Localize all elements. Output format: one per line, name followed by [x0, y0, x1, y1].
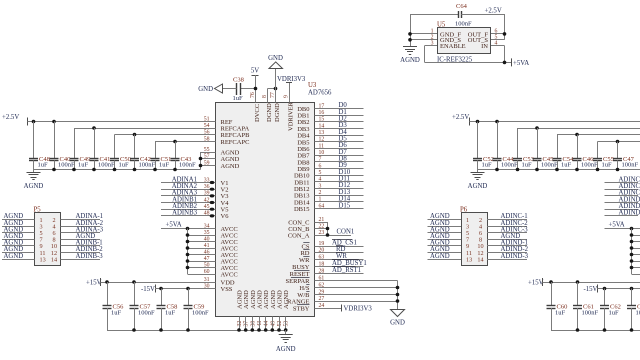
junction — [133, 168, 137, 172]
wire -15V to VSS — [155, 288, 216, 290]
pin 1 GND_F (U5) — [431, 29, 462, 39]
wire STBY stub — [315, 308, 342, 310]
connector P6 — [460, 207, 488, 266]
junction — [133, 133, 137, 137]
wire P5 pin 5 AGND — [2, 226, 35, 233]
capacitor C48 — [29, 122, 50, 170]
wire +15V to VDD — [101, 282, 216, 284]
wire net ADINA2 to V2 — [161, 183, 216, 191]
junction — [603, 287, 607, 291]
wire net ADINB2 to V5 — [161, 203, 216, 211]
wire AGND bottom bus — [107, 328, 286, 332]
wire net ADINC1 — [605, 176, 640, 183]
junction — [555, 168, 559, 172]
ic U3 AD7656 body — [216, 82, 333, 317]
svg-text:CON1: CON1 — [337, 229, 355, 236]
pin 42 V4 (U3 left) — [204, 197, 229, 207]
ground GND (left arrow port) — [198, 84, 222, 93]
wire net ADINA1 to V1 — [161, 176, 216, 184]
junction — [396, 293, 400, 297]
wire U3 AGND pin 38 — [251, 317, 255, 332]
svg-text:1uF: 1uF — [38, 162, 49, 169]
wire P5 pin 2 ADINA-1 — [61, 213, 104, 220]
wire AGND rail (right bank) — [478, 169, 640, 171]
svg-text:37: 37 — [244, 321, 250, 327]
ground AGND (under U3) — [276, 330, 296, 353]
wire +5VA bus (right) — [630, 229, 640, 275]
svg-text:BUSY: BUSY — [292, 264, 310, 271]
power -15V (right) — [584, 285, 598, 294]
pin 44 AGND (U3 bottom) — [263, 290, 270, 327]
net VDRI3V3 (top) — [277, 76, 306, 83]
svg-text:VDRIVER: VDRIVER — [288, 101, 295, 131]
wire OUT_S — [491, 14, 505, 40]
wire SERPAR to GND — [315, 281, 398, 310]
capacitor C56 — [103, 282, 125, 330]
wire P6 pin 8 AGND — [487, 233, 527, 240]
svg-text:100nF: 100nF — [455, 21, 472, 28]
wire REFCAPC net (right) — [598, 141, 640, 143]
junction — [575, 133, 579, 137]
junction — [52, 120, 56, 124]
capacitor C41 — [90, 128, 116, 170]
wire P5 pin 4 ADINA-2 — [61, 220, 104, 227]
pin 46 AVCC (U3 left) — [204, 249, 238, 259]
wire net D6 — [315, 142, 364, 149]
svg-text:53: 53 — [284, 321, 290, 327]
svg-text:60: 60 — [204, 269, 210, 275]
junction — [186, 227, 190, 231]
wire U3 AGND pin 53 — [284, 317, 288, 332]
svg-text:49: 49 — [270, 321, 276, 327]
pin 58 REFCAPC (U3 left) — [204, 136, 250, 146]
svg-text:1uF: 1uF — [119, 162, 130, 169]
wire CON_C — [315, 222, 328, 224]
svg-text:REFCAPB: REFCAPB — [221, 132, 251, 139]
capacitor C42 — [130, 135, 156, 170]
wire +5VA row (right) — [605, 228, 640, 230]
junction — [616, 168, 620, 172]
capacitor C61 — [573, 282, 599, 330]
capacitor C44 — [493, 122, 519, 170]
svg-text:RESET: RESET — [290, 271, 310, 278]
svg-text:100nF: 100nF — [501, 162, 518, 169]
svg-text:1uF: 1uF — [609, 309, 620, 316]
pin 14 DB3 (U3 right) — [297, 123, 324, 133]
svg-text:100nF: 100nF — [582, 309, 599, 316]
svg-text:REFCAPC: REFCAPC — [221, 139, 250, 146]
wire U5 top right — [461, 14, 504, 16]
pin 53 AGND (U3 bottom) — [283, 290, 290, 327]
ground GND (down arrow) — [390, 310, 405, 327]
wire GND_S — [410, 39, 437, 41]
svg-text:CON_A: CON_A — [288, 232, 310, 239]
capacitor C55 — [593, 142, 614, 170]
ground AGND (U5) — [400, 47, 420, 65]
junction — [535, 126, 539, 130]
wire net D3 — [315, 122, 364, 129]
junction — [199, 157, 203, 161]
svg-text:9: 9 — [284, 95, 290, 98]
svg-text:GND: GND — [390, 320, 405, 327]
wire U3 AGND pin 44 — [264, 317, 268, 332]
pin 1 DB14 (U3 right) — [294, 197, 322, 207]
pin 17 DB0 (U3 right) — [297, 103, 324, 113]
junction — [72, 168, 76, 172]
svg-text:IN: IN — [481, 43, 488, 50]
wire U3 AGND pin 32 — [237, 317, 241, 332]
ic U5 REF3225 body — [437, 22, 491, 64]
power -15V (left) — [141, 285, 156, 294]
capacitor C60 — [547, 282, 568, 330]
svg-text:ADINB3: ADINB3 — [172, 210, 198, 217]
ground AGND (right bank) — [468, 170, 488, 191]
junction — [92, 126, 96, 130]
wire U3 AGND pin 43 — [257, 317, 261, 332]
svg-text:14: 14 — [477, 256, 483, 263]
svg-text:100nF: 100nF — [138, 309, 155, 316]
wire P5 pin 7 AGND — [2, 233, 35, 240]
wire net D5 — [315, 136, 364, 143]
wire net ADINC3 — [605, 190, 640, 197]
svg-text:AD7656: AD7656 — [308, 90, 332, 97]
svg-text:1uF: 1uF — [522, 162, 533, 169]
capacitor C54 — [553, 135, 575, 170]
ground GND (up arrow) — [268, 55, 283, 69]
svg-text:DGND: DGND — [274, 103, 281, 122]
power +5VA (right) — [609, 222, 625, 229]
svg-text:1uF: 1uF — [561, 162, 572, 169]
pin 55 AGND (U3 left) — [204, 147, 240, 157]
power +2.5V (left) — [2, 114, 28, 126]
capacitor C45 — [533, 128, 559, 170]
power +5VA (U5) — [512, 58, 530, 67]
wire U5 left vertical — [410, 14, 412, 47]
svg-text:54: 54 — [204, 123, 210, 129]
wire P6 pin 7 AGND — [428, 233, 462, 240]
pin 36 V2 (U3 left) — [204, 184, 229, 194]
svg-text:1uF: 1uF — [482, 162, 493, 169]
junction — [549, 280, 553, 284]
wire DGND pin77 to GND — [275, 69, 277, 103]
pin 35 AVCC (U3 left) — [204, 230, 238, 240]
wire REFCAPA net — [74, 128, 216, 130]
junction — [132, 280, 136, 284]
junction — [535, 168, 539, 172]
junction — [576, 280, 580, 284]
wire P5 pin 1 AGND — [2, 213, 35, 220]
pin 6 OUT_F (U5) — [468, 29, 498, 39]
capacitor C64 — [455, 3, 472, 28]
pin 63 WR (U3 right) — [299, 254, 324, 264]
wire net ADIND1 — [605, 196, 640, 203]
wire OUT_F — [491, 33, 505, 35]
pin 62 H/S (U3 right) — [299, 282, 324, 292]
svg-text:100nF: 100nF — [179, 162, 196, 169]
junction — [254, 87, 258, 91]
svg-text:+15V: +15V — [86, 280, 102, 287]
wire +2.5V rail (right) — [470, 121, 640, 123]
pin 13 DB4 (U3 right) — [297, 130, 324, 140]
junction — [153, 168, 157, 172]
wire net D12 — [315, 182, 364, 189]
junction — [616, 140, 620, 144]
svg-text:AD_RST1: AD_RST1 — [332, 267, 361, 274]
pin 18 BUSY (U3 right) — [292, 261, 324, 271]
pin 2 DB13 (U3 right) — [294, 190, 322, 200]
svg-text:AGND: AGND — [468, 183, 488, 190]
wire net ADINB3 to V6 — [161, 210, 216, 218]
svg-text:C38: C38 — [233, 77, 244, 84]
pin 64 DB15 (U3 right) — [294, 203, 324, 213]
wire DGND pin8 jog — [268, 89, 276, 103]
pin 40 AVCC (U3 left) — [204, 236, 238, 246]
wire P6 pin 4 ADINC-2 — [487, 220, 528, 227]
svg-text:31: 31 — [204, 277, 210, 283]
pin 4 DB11 (U3 right) — [294, 177, 321, 187]
svg-text:1uF: 1uF — [233, 95, 244, 102]
capacitor C59 — [184, 289, 210, 331]
junction — [396, 286, 400, 290]
power +5VA (left) — [166, 222, 182, 229]
pin 3 DB12 (U3 right) — [294, 183, 322, 193]
wire U3 AGND pin 52 — [277, 317, 281, 332]
pin 47 AVCC (U3 left) — [204, 256, 238, 266]
pin 43 AGND (U3 bottom) — [257, 290, 264, 327]
junction — [113, 168, 117, 172]
svg-text:AGND: AGND — [430, 253, 450, 260]
pin 54 REFCAPA (U3 left) — [204, 123, 250, 133]
junction — [408, 38, 412, 42]
pin 8 DGND (U3 top) — [262, 95, 273, 122]
pin 59 AGND (U3 left) — [204, 160, 240, 170]
wire P5 pin 3 AGND — [2, 220, 35, 227]
svg-text:1uF: 1uF — [159, 162, 170, 169]
wire P5 pin 10 ADINB-1 — [61, 240, 103, 247]
wire VDRIVER stub — [289, 83, 291, 103]
pin 31 VDD (U3 left) — [204, 277, 235, 287]
svg-text:GND: GND — [198, 86, 213, 93]
svg-text:100nF: 100nF — [139, 162, 156, 169]
wire +5VA row — [161, 228, 216, 230]
pin 77 DGND (U3 top) — [270, 92, 281, 122]
svg-text:+2.5V: +2.5V — [485, 8, 502, 15]
net +2.5V (U5 out) — [485, 8, 502, 15]
svg-text:DB15: DB15 — [294, 206, 310, 213]
svg-text:1uF: 1uF — [165, 309, 176, 316]
wire net D7 — [315, 149, 364, 156]
pin 24 STBY (U3 right) — [293, 303, 325, 313]
svg-text:5V: 5V — [251, 68, 259, 75]
pin 51 REF (U3 left) — [204, 116, 233, 126]
pin 39 V3 (U3 left) — [204, 190, 229, 200]
svg-text:41: 41 — [204, 243, 210, 249]
junction — [199, 164, 203, 168]
svg-text:-15V: -15V — [584, 286, 598, 293]
junction — [503, 32, 507, 36]
wire U3 AGND pin 49 — [271, 317, 275, 332]
pin 12 DB5 (U3 right) — [297, 137, 324, 147]
pin 32 AGND (U3 bottom) — [237, 290, 244, 327]
svg-text:36: 36 — [204, 184, 210, 190]
svg-text:100nF: 100nF — [192, 309, 209, 316]
pin 7 DB8 (U3 right) — [297, 157, 321, 167]
junction — [476, 120, 480, 124]
svg-text:V6: V6 — [221, 213, 230, 220]
wire net D8 — [315, 156, 364, 163]
junction — [396, 299, 400, 303]
pin 6 DB9 (U3 right) — [297, 163, 321, 173]
svg-text:23: 23 — [319, 230, 325, 236]
junction — [503, 61, 507, 65]
wire P5 pin 6 ADINA-3 — [61, 226, 104, 233]
capacitor C38 — [233, 77, 244, 103]
wire DVCC to 5V — [255, 75, 257, 103]
wire P6 pin 2 ADINC-1 — [487, 213, 528, 220]
wire -15V rail (right) — [598, 288, 640, 290]
connector P5 — [34, 207, 61, 266]
pin 52 AGND (U3 bottom) — [277, 290, 284, 327]
wire net ADINB1 to V4 — [161, 196, 216, 204]
wire net D13 — [315, 189, 364, 196]
pin 33 V1 (U3 left) — [204, 177, 229, 187]
wire net D1 — [315, 109, 364, 116]
svg-text:38: 38 — [250, 321, 256, 327]
pin 23 CON_A (U3 right) — [288, 230, 325, 240]
wire P5 pin 13 AGND — [2, 253, 35, 260]
svg-text:+5VA: +5VA — [513, 60, 529, 67]
junction — [173, 168, 177, 172]
svg-text:13: 13 — [466, 256, 472, 263]
svg-text:C64: C64 — [456, 3, 468, 10]
wire CON_B — [315, 228, 328, 230]
wire IN drop — [491, 46, 505, 63]
svg-text:SERPAR: SERPAR — [286, 278, 311, 285]
wire REFCAPA net (right) — [518, 128, 640, 130]
pin 50 AVCC (U3 left) — [204, 262, 238, 272]
wire net D10 — [315, 169, 364, 176]
wire GND to C38 — [223, 88, 237, 90]
svg-text:ADINB-3: ADINB-3 — [76, 253, 104, 260]
junction — [495, 120, 499, 124]
svg-text:100nF: 100nF — [581, 162, 598, 169]
capacitor C50 — [110, 135, 131, 170]
wire P6 pin 13 AGND — [428, 253, 462, 260]
junction — [274, 87, 278, 91]
svg-text:100nF: 100nF — [58, 162, 75, 169]
svg-text:AGND: AGND — [4, 253, 24, 260]
svg-text:21: 21 — [319, 217, 325, 223]
wire P6 pin 5 AGND — [428, 226, 462, 233]
svg-text:AGND: AGND — [400, 57, 420, 64]
wire C38 to DVCC riser — [240, 88, 255, 90]
power +5V — [251, 68, 259, 76]
wire net D0 — [315, 102, 364, 109]
svg-text:100nF: 100nF — [622, 162, 639, 169]
wire AGND rail (bottom right) — [551, 328, 640, 332]
svg-text:19: 19 — [319, 241, 325, 247]
pin 48 V6 (U3 left) — [204, 210, 229, 220]
wire net D4 — [315, 129, 364, 136]
svg-text:44: 44 — [264, 321, 270, 327]
svg-text:AGND: AGND — [221, 163, 240, 170]
wire AGND rail (left bank) — [34, 169, 201, 171]
pin 9 VDRIVER (U3 top) — [284, 95, 295, 131]
svg-text:H/S: H/S — [299, 285, 310, 292]
capacitor C47 — [613, 142, 639, 170]
svg-text:+2.5V: +2.5V — [452, 114, 469, 121]
pin 45 V5 (U3 left) — [204, 204, 229, 214]
svg-text:1uF: 1uF — [78, 162, 89, 169]
pin 10 DB7 (U3 right) — [297, 150, 324, 160]
wire REFCAPB net (right) — [557, 134, 640, 136]
pin 19 CS (U3 right) — [302, 241, 325, 251]
wire P6 pin 11 AGND — [428, 246, 462, 253]
wire net AD_BUSY1 — [315, 260, 367, 268]
capacitor C52 — [473, 122, 494, 170]
wire ENABLE loop — [425, 46, 512, 63]
wire W/B — [315, 294, 398, 296]
capacitor C53 — [513, 128, 534, 170]
pin 76 DVCC (U3 top) — [250, 92, 261, 122]
wire H/S — [315, 287, 398, 289]
svg-text:AGND: AGND — [276, 346, 296, 353]
pin 28 RESET (U3 right) — [290, 268, 325, 278]
svg-text:+15V: +15V — [528, 280, 544, 287]
pin 41 AVCC (U3 left) — [204, 243, 238, 253]
pin 57 AGND (U3 left) — [204, 153, 240, 163]
svg-text:DGND: DGND — [266, 103, 273, 122]
capacitor C62 — [600, 289, 621, 331]
pin 60 AVCC (U3 left) — [204, 269, 238, 279]
wire P6 pin 14 ADIND-3 — [487, 253, 529, 260]
wire P6 pin 9 AGND — [428, 240, 462, 247]
wire net WR — [315, 253, 364, 261]
svg-text:100nF: 100nF — [541, 162, 558, 169]
svg-text:DVCC: DVCC — [254, 104, 261, 122]
svg-text:VDRI3V3: VDRI3V3 — [277, 76, 306, 83]
wire P5 pin 11 AGND — [2, 246, 35, 253]
pin 16 DB1 (U3 right) — [297, 110, 324, 120]
svg-text:VDRI3V3: VDRI3V3 — [344, 306, 373, 313]
wire CON_A net CON1 — [315, 222, 355, 237]
wire net ADIND2 — [605, 203, 640, 210]
pin 38 AGND (U3 bottom) — [250, 290, 257, 327]
wire +2.5V rail to REF pin 51 — [28, 121, 216, 123]
junction — [92, 168, 96, 172]
junction — [186, 287, 190, 291]
wire net ADINA3 to V3 — [161, 190, 216, 198]
junction — [32, 120, 36, 124]
junction — [516, 168, 520, 172]
pin 20 RD (U3 right) — [300, 247, 324, 257]
svg-text:U5: U5 — [437, 22, 446, 29]
capacitor C49 — [70, 128, 91, 170]
svg-text:STBY: STBY — [293, 305, 310, 312]
wire P6 pin 12 ADIND-2 — [487, 246, 529, 253]
wire +5VA bus to AVCC pins — [186, 229, 216, 275]
svg-text:AGND: AGND — [221, 156, 240, 163]
svg-text:1uF: 1uF — [602, 162, 613, 169]
svg-text:1uF: 1uF — [111, 309, 122, 316]
wire net D14 — [315, 196, 364, 203]
pin 34 AVCC (U3 left) — [204, 223, 238, 233]
net VDRI3V3 (STBY) — [342, 305, 373, 313]
svg-text:14: 14 — [51, 256, 57, 263]
pin 30 VSS (U3 left) — [204, 283, 233, 293]
wire P6 pin 1 AGND — [428, 213, 462, 220]
junction — [495, 168, 499, 172]
